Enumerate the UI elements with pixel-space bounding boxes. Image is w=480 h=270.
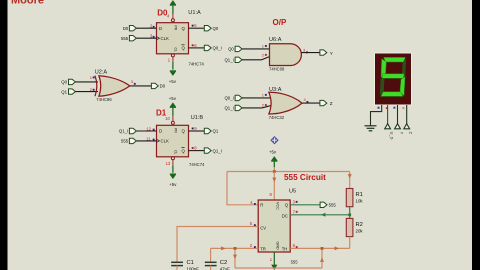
wire or output xyxy=(302,102,320,104)
svg-text:D: D xyxy=(159,26,162,31)
svg-text:R2: R2 xyxy=(356,222,363,228)
xor gate U2:A body xyxy=(99,76,130,97)
svg-text:Moore: Moore xyxy=(11,0,44,7)
svg-text:GND: GND xyxy=(275,242,279,251)
wire C1 bottom stub xyxy=(176,266,178,270)
svg-text:PR: PR xyxy=(173,128,177,133)
pin state dot Q (U1:B) xyxy=(192,128,194,130)
wire PRE stub U1:A xyxy=(172,14,174,19)
pin state dot CV xyxy=(254,224,256,226)
svg-text:U5: U5 xyxy=(289,189,296,195)
svg-text:Q0: Q0 xyxy=(61,80,67,85)
svg-text:C2: C2 xyxy=(220,260,227,266)
svg-text:U2:A: U2:A xyxy=(95,70,108,76)
left black letterbox bar xyxy=(0,0,8,270)
svg-text:U1:A: U1:A xyxy=(188,10,201,16)
svg-text:Q0_I: Q0_I xyxy=(213,46,222,51)
wire xor input 2 xyxy=(75,91,98,93)
svg-text:100nF: 100nF xyxy=(187,267,200,270)
wire and input 1 xyxy=(242,48,270,50)
svg-text:DC: DC xyxy=(282,214,288,219)
pin dots and numbers U6:A xyxy=(262,44,308,58)
input terminal Q1_I (and) xyxy=(224,57,242,62)
wire TH (right) xyxy=(290,247,350,249)
input terminal Q1 (xor) xyxy=(61,89,75,94)
input terminal D0 xyxy=(123,26,137,31)
input terminal 555 (clk D0) xyxy=(121,36,136,41)
wire CLR stub U1:B xyxy=(172,160,174,166)
wire and input 2 (with jog) xyxy=(242,57,270,60)
terminal triangle pin1 xyxy=(404,124,410,129)
arrowhead TR branch xyxy=(233,255,237,259)
wire R1 bottom (green) xyxy=(349,207,351,219)
svg-text:Y: Y xyxy=(399,132,404,135)
segment a (on) xyxy=(384,57,406,62)
wire Qbar output U1:A xyxy=(189,47,205,49)
capacitor C1 xyxy=(171,262,183,265)
svg-text:47uF: 47uF xyxy=(220,267,230,270)
wire VCC drop xyxy=(273,172,275,201)
output terminal Q1 xyxy=(204,128,219,133)
arrowhead TH wire xyxy=(335,246,339,250)
PRE inversion bubble U1:A xyxy=(171,19,174,22)
svg-text:Q1: Q1 xyxy=(213,129,219,134)
svg-text:TH: TH xyxy=(282,246,288,251)
ground arrow (cut at bottom) xyxy=(271,265,277,270)
svg-text:D0: D0 xyxy=(160,84,166,89)
svg-text:+5v: +5v xyxy=(169,96,177,101)
arrowhead VCC drop xyxy=(272,178,276,182)
U5 inner labels xyxy=(260,203,289,252)
pin dots and numbers U2:A xyxy=(90,75,136,92)
wire D input U1:A xyxy=(136,27,156,29)
svg-text:12: 12 xyxy=(146,126,151,131)
arrowhead TR wire xyxy=(221,246,225,250)
svg-text:CLK: CLK xyxy=(161,139,169,144)
PRE inversion bubble U1:B xyxy=(171,121,174,124)
pin state dot Qbar xyxy=(192,44,194,46)
wire top power rail xyxy=(227,171,350,173)
svg-text:CL: CL xyxy=(173,150,177,154)
segment c (on) xyxy=(400,77,405,96)
pin state dot DC xyxy=(296,211,298,213)
display pin 4 wire xyxy=(387,105,389,124)
wire Q output U1:B xyxy=(189,130,205,132)
svg-text:CLK: CLK xyxy=(161,36,169,41)
display pin state dots xyxy=(378,107,405,109)
U1:A inner pin labels xyxy=(159,26,186,51)
segment g (on) xyxy=(382,74,404,79)
svg-text:D: D xyxy=(159,129,162,134)
CLR inversion bubble U1:B xyxy=(171,157,174,160)
output terminal Q1_I xyxy=(204,148,222,153)
svg-text:U1:B: U1:B xyxy=(191,115,204,121)
wire Q output U1:A xyxy=(189,27,205,29)
wire CLR stub U1:A xyxy=(172,57,174,62)
wire DC (green) xyxy=(290,214,350,216)
wire Q output (green) xyxy=(290,204,320,206)
arrowhead DC wire (points left) xyxy=(321,213,325,217)
wire C2 bottom stub xyxy=(210,266,212,270)
display pin 8 wire to ground xyxy=(371,105,382,126)
segment f (on) xyxy=(381,59,386,78)
svg-text:Q1: Q1 xyxy=(61,89,67,94)
svg-text:Q1_I: Q1_I xyxy=(224,106,233,111)
output terminal Q0 xyxy=(204,26,219,31)
svg-text:74HC08: 74HC08 xyxy=(269,67,285,72)
capacitor C2 xyxy=(205,262,217,265)
U1:B inner pin labels xyxy=(159,129,186,154)
svg-text:+5v: +5v xyxy=(169,79,177,84)
input terminal Q0 (xor) xyxy=(61,79,75,84)
svg-text:TR: TR xyxy=(260,246,266,251)
svg-text:R1: R1 xyxy=(356,192,363,198)
svg-text:555 Circuit: 555 Circuit xyxy=(284,173,326,182)
terminal triangle pin2 xyxy=(395,124,401,129)
flip-flop U1:A body xyxy=(157,23,189,54)
svg-text:Q0_I: Q0_I xyxy=(224,96,233,101)
wire TR (left) xyxy=(211,247,259,249)
wire xor input 1 xyxy=(75,81,98,83)
wire and output xyxy=(301,52,320,54)
xor gate U2:A input arc xyxy=(95,76,97,97)
svg-text:Q1_I: Q1_I xyxy=(213,148,222,153)
segment b (off) xyxy=(402,59,406,77)
power +5v terminal above U1:B xyxy=(169,96,177,116)
junction dot TH branch xyxy=(321,247,324,250)
svg-text:74HC74: 74HC74 xyxy=(189,162,205,167)
svg-text:Q1_I: Q1_I xyxy=(224,58,233,63)
svg-text:555: 555 xyxy=(121,36,129,41)
wire CLK input U1:A xyxy=(136,37,156,39)
svg-text:74HC32: 74HC32 xyxy=(269,115,285,120)
pin dots and numbers U3:A xyxy=(262,92,309,107)
555 timer U5 body xyxy=(258,200,290,252)
svg-text:74HC74: 74HC74 xyxy=(189,62,205,67)
output terminal Q0_I xyxy=(204,45,222,50)
wire bottom rail xyxy=(235,267,322,269)
svg-text:Z: Z xyxy=(330,101,333,106)
pin state dot CLK (U1:B) xyxy=(153,139,155,141)
ground symbol xyxy=(365,126,377,131)
Qbar overline U1:B xyxy=(181,147,184,149)
wire R2 bottom xyxy=(349,237,351,249)
wire GND pin down xyxy=(273,252,275,265)
pin state dot CLK xyxy=(153,36,155,38)
wire R1 top drop xyxy=(349,172,351,189)
wire reset loop (left) xyxy=(227,172,258,205)
wire Qbar output U1:B xyxy=(189,150,205,152)
flip-flop U1:B body xyxy=(157,125,189,157)
svg-text:Y: Y xyxy=(330,51,333,56)
svg-text:D0: D0 xyxy=(123,26,129,31)
wire C2 top stub xyxy=(210,248,212,262)
and gate U6:A body xyxy=(270,44,302,66)
svg-text:O/P: O/P xyxy=(273,18,287,27)
svg-text:R: R xyxy=(260,203,263,208)
blue ornament diamond xyxy=(271,137,278,144)
pin state dot Q (U5) xyxy=(296,201,298,203)
svg-text:74HC86: 74HC86 xyxy=(96,97,112,102)
pin state dot Qbar (U1:B) xyxy=(192,147,194,149)
resistor R1 body xyxy=(346,189,353,207)
svg-text:+5v: +5v xyxy=(169,182,177,187)
pin state dot Q xyxy=(192,25,194,27)
pin state dot R xyxy=(254,203,256,205)
CLK triangle U1:B xyxy=(157,139,160,142)
input terminal Q0 (and) xyxy=(228,46,242,51)
wire xor output xyxy=(130,85,152,87)
junction dot rail/+5v xyxy=(273,170,276,173)
svg-text:10: 10 xyxy=(165,116,170,121)
wire CLK input U1:B xyxy=(136,140,156,142)
svg-text:555: 555 xyxy=(121,139,129,144)
wire TH branch up xyxy=(321,248,323,268)
svg-text:+5v: +5v xyxy=(269,149,277,154)
wire or input 1 xyxy=(242,97,272,99)
svg-text:U6:A: U6:A xyxy=(269,37,282,43)
junction dot TR branch xyxy=(234,247,237,250)
output terminal 555 xyxy=(320,202,336,207)
right black letterbox bar xyxy=(472,0,480,270)
power +5v terminal below U1:B (down arrow) xyxy=(169,165,177,186)
power +5v terminal (555) xyxy=(271,156,277,167)
pin state dot TH xyxy=(296,246,298,248)
power +5v terminal above U1:A xyxy=(170,0,176,13)
terminal triangle pin4 xyxy=(385,124,391,129)
svg-text:Q1_I: Q1_I xyxy=(119,129,128,134)
svg-text:Q0: Q0 xyxy=(228,47,234,52)
wire +5v to rail xyxy=(273,167,275,172)
output terminal Y xyxy=(320,50,333,56)
arrowhead R1 drop xyxy=(348,174,352,178)
svg-text:11: 11 xyxy=(146,136,151,141)
svg-text:PR: PR xyxy=(173,26,177,31)
svg-text:10k: 10k xyxy=(356,199,364,204)
svg-text:555: 555 xyxy=(329,203,337,208)
or gate U3:A body xyxy=(269,92,302,114)
input terminal Q0_I (or) xyxy=(224,95,242,100)
svg-text:CV: CV xyxy=(260,225,266,230)
svg-text:CL: CL xyxy=(173,48,177,52)
input terminal 555 (clk D1) xyxy=(121,138,136,143)
arrowhead TH branch (up) xyxy=(320,258,324,262)
pin state dot D xyxy=(153,26,155,28)
wire or input 2 (with jog) xyxy=(242,106,271,108)
CLK triangle U1:A xyxy=(157,37,160,40)
wire PRE stub U1:B xyxy=(172,116,174,121)
output terminal Z xyxy=(320,100,333,106)
input terminal Q1_I xyxy=(119,128,136,133)
display pin 1 wire xyxy=(406,105,408,124)
7-segment display body xyxy=(375,53,412,105)
svg-text:U_D: U_D xyxy=(390,132,395,140)
segment e (off) xyxy=(380,79,385,96)
display pin 2 wire xyxy=(397,105,399,124)
Qbar overline U1:A xyxy=(181,44,184,46)
svg-text:C1: C1 xyxy=(187,260,194,266)
svg-text:VCC: VCC xyxy=(275,202,279,210)
pin state dot D (U1:B) xyxy=(153,129,155,131)
svg-text:Q0: Q0 xyxy=(213,26,219,31)
wire TR branch down xyxy=(234,248,236,268)
svg-text:13: 13 xyxy=(166,161,171,166)
segment d (on) xyxy=(381,92,403,97)
input terminal Q1_I (or) xyxy=(224,105,242,110)
output terminal D0 (xor out) xyxy=(151,83,165,88)
resistor R2 body xyxy=(346,218,353,236)
pin state dot TR xyxy=(254,246,256,248)
junction dot R1/R2/DC (green) xyxy=(348,213,351,216)
wire CV (left) xyxy=(177,227,258,262)
CLR inversion bubble U1:A xyxy=(171,54,174,57)
svg-text:20k: 20k xyxy=(356,229,364,234)
power +5v terminal below U1:A (down arrow) xyxy=(169,62,177,84)
svg-text:555: 555 xyxy=(291,259,299,264)
wire D input U1:B xyxy=(136,130,156,132)
